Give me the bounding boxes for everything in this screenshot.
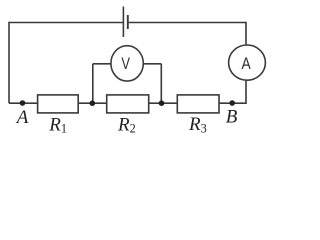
- voltmeter U1 circle: [111, 46, 143, 81]
- svg-text:R2: R2: [117, 114, 136, 135]
- wire bottom left to R1: [9, 102, 38, 104]
- svg-text:R3: R3: [188, 114, 207, 135]
- battery cell short plate: [127, 15, 129, 29]
- svg-text:B: B: [226, 107, 238, 128]
- svg-text:A: A: [15, 107, 29, 128]
- wire R3 to corner B: [219, 102, 246, 104]
- junction dot between R2 and R3: [159, 100, 165, 106]
- wire right vertical lower: [245, 80, 247, 104]
- node A junction dot: [20, 100, 26, 106]
- ammeter U2 circle: [229, 45, 266, 80]
- wire right vertical upper: [245, 22, 247, 45]
- wire voltmeter right horizontal: [143, 63, 161, 65]
- svg-text:V: V: [121, 55, 130, 73]
- battery cell long plate: [122, 7, 124, 38]
- resistor R1: [38, 95, 79, 113]
- wire left vertical: [8, 22, 10, 104]
- wire voltmeter left vertical: [92, 64, 94, 103]
- wire R2 to R3: [149, 102, 178, 104]
- wire voltmeter right vertical: [160, 64, 162, 103]
- wire R1 to R2: [78, 102, 107, 104]
- resistor R2: [107, 95, 149, 113]
- svg-text:A: A: [242, 54, 252, 73]
- wire top left segment: [9, 22, 123, 24]
- junction dot between R1 and R2: [90, 100, 96, 106]
- node B junction dot: [229, 100, 235, 106]
- wire voltmeter left horizontal: [93, 63, 111, 65]
- wire top right segment: [129, 22, 246, 24]
- svg-text:R1: R1: [48, 114, 67, 135]
- resistor R3: [177, 95, 219, 113]
